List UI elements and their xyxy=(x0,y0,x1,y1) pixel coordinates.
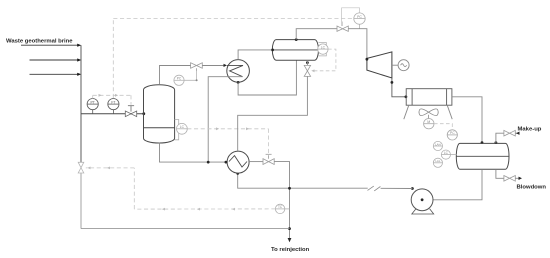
wire signal M to PC3 dashed xyxy=(434,124,452,130)
node arrow inlet 3 xyxy=(77,73,81,76)
instrument LC hotwell level xyxy=(441,150,456,159)
svg-text:To reinjection: To reinjection xyxy=(271,247,310,253)
node signal arrow TCe xyxy=(232,208,235,211)
instrument M fan motor xyxy=(424,119,434,129)
node pump shaft dot xyxy=(421,198,424,201)
instrument TC reinjection temperature xyxy=(275,204,289,213)
svg-text:LAH: LAH xyxy=(435,142,441,146)
valve V1 brine inlet control valve xyxy=(125,106,136,117)
svg-text:PC: PC xyxy=(450,131,455,135)
instrument LAH xyxy=(433,141,442,150)
node arrow blowdown xyxy=(519,177,523,180)
wire make-up line xyxy=(496,133,504,143)
wire condenser legs xyxy=(404,105,452,119)
wire separator steam outlet xyxy=(160,66,191,85)
wire downcomer HX1 bottom to drum bottom xyxy=(238,60,296,95)
wire brine separator bottom to HX2 xyxy=(160,143,228,162)
wire blowdown stub xyxy=(515,177,519,179)
node junction pump discharge xyxy=(411,187,414,190)
wire turbine exhaust to condenser xyxy=(392,78,406,97)
node junction riser to drum xyxy=(271,49,274,52)
valve V2 steam valve xyxy=(191,63,203,71)
wire riser HX1 top to drum xyxy=(238,50,272,60)
node junction drum top steam xyxy=(295,38,298,41)
node signal arrow LC1b xyxy=(246,127,249,130)
wire letdown to reinjection xyxy=(274,162,289,239)
vessel flash separator xyxy=(144,85,175,143)
instrument PC3 condenser pressure xyxy=(447,130,457,140)
node junction turbine inlet xyxy=(366,58,369,61)
wire main steam line to turbine xyxy=(296,29,337,40)
wire HX2 outlet to letdown valve xyxy=(249,161,263,163)
wire steam to evaporator xyxy=(202,65,224,67)
node arrow inlet 2 xyxy=(77,58,81,61)
svg-text:LAL: LAL xyxy=(435,159,441,163)
node signal arrow TCb xyxy=(107,167,110,170)
heat-exchanger HX1 evaporator xyxy=(227,60,250,83)
wire feedwater pump to HX2 right part xyxy=(381,187,413,189)
node junction at separator inlet xyxy=(142,112,145,115)
node junction hotwell inlet xyxy=(481,141,484,144)
wire condensate to hotwell xyxy=(452,97,482,144)
svg-text:PT: PT xyxy=(91,100,95,104)
node signal arrow TCa xyxy=(87,167,90,170)
wire signal LC2 to valve V4 dashed xyxy=(313,49,336,71)
node signal arrow 1 xyxy=(99,94,102,97)
svg-text:LC: LC xyxy=(180,125,185,129)
svg-text:Blowdown: Blowdown xyxy=(517,185,547,191)
instrument LAL xyxy=(433,158,442,167)
instrument PT xyxy=(87,99,98,114)
heat-exchanger HX2 preheater xyxy=(227,151,249,173)
valve V7 make-up valve xyxy=(504,130,515,136)
wire HX1 brine condensate outlet xyxy=(208,77,242,162)
wire steam line after valve xyxy=(348,29,367,59)
instrument PC2 steam pressure controller xyxy=(354,13,365,29)
wire brine header vertical lower xyxy=(80,173,82,229)
node junction PC signal xyxy=(196,79,198,81)
instrument FT xyxy=(108,99,119,114)
wire feedwater line left part xyxy=(238,173,368,188)
node signal arrow TCd xyxy=(197,208,200,211)
wire signal LC1 to valve V5 dashed xyxy=(187,129,268,154)
node signal arrow LC1a xyxy=(216,127,219,130)
svg-text:PC: PC xyxy=(177,77,182,81)
node signal arrow 2 xyxy=(115,94,118,97)
node junction feedwater crossing xyxy=(288,187,291,190)
instrument PC separator pressure xyxy=(174,71,197,85)
svg-text:Waste geothermal brine: Waste geothermal brine xyxy=(6,39,73,45)
wire blowdown line xyxy=(496,169,504,178)
wire drum bottom stub xyxy=(306,60,308,65)
wire make-up stub xyxy=(515,132,519,134)
wire signal dashed PT FT to valve V1 xyxy=(93,95,131,105)
vessel steam drum xyxy=(272,40,318,61)
node junction drum bottom feed xyxy=(306,61,309,64)
generator G xyxy=(392,60,409,71)
node arrow inlet 1 xyxy=(77,44,81,47)
valve V3 turbine inlet valve xyxy=(337,26,348,31)
wire feedwater valve to HX2 top xyxy=(238,76,308,151)
turbine xyxy=(367,52,392,78)
node junction HX2 bottom xyxy=(236,172,239,175)
node signal arrow TCc xyxy=(162,208,165,211)
wire brine feed pipe to separator xyxy=(81,113,144,115)
svg-text:M: M xyxy=(427,120,430,124)
svg-text:PC: PC xyxy=(357,15,362,19)
svg-text:Make-up: Make-up xyxy=(518,127,542,133)
node junction condenser inlet xyxy=(405,95,408,98)
wire hotwell to pump suction xyxy=(422,169,482,200)
valve V4 feedwater valve vertical xyxy=(304,65,310,76)
node junction make-up tee xyxy=(495,141,498,144)
node junction HX2 left xyxy=(225,161,228,164)
line break symbol xyxy=(368,186,381,191)
node junction exhaust xyxy=(391,81,394,84)
svg-text:LC: LC xyxy=(444,151,449,155)
wire brine inlet line 1 xyxy=(21,44,78,46)
wire brine inlet line 3 xyxy=(30,73,79,75)
valve V8 blowdown valve xyxy=(504,176,515,182)
valve V5 brine letdown valve xyxy=(263,154,274,164)
wire signal TC to bypass valve dashed xyxy=(86,168,276,209)
wire signal PC2 to valve V3 xyxy=(342,8,360,26)
node junction brine condensate join xyxy=(207,161,210,164)
node arrow into evaporator xyxy=(224,64,228,67)
wire brine inlet line 2 xyxy=(30,59,79,61)
node arrow to reinjection xyxy=(288,238,292,242)
svg-text:FT: FT xyxy=(111,100,115,104)
instrument LC2 drum level xyxy=(318,43,328,56)
node arrow make-up xyxy=(516,132,520,135)
node junction HX1 bottom xyxy=(237,81,240,84)
valve V6 brine bypass valve xyxy=(78,162,84,173)
fan condenser fan xyxy=(419,109,438,119)
wire signal dashed FT to PC top (long) xyxy=(113,19,353,98)
wire reinjection header xyxy=(81,228,290,230)
condenser air cooled xyxy=(406,89,452,106)
svg-text:LC: LC xyxy=(321,45,326,49)
instrument LC1 separator level xyxy=(175,120,188,140)
wire brine header vertical xyxy=(80,45,82,162)
pump condensate pump xyxy=(411,189,434,214)
vessel hotwell drum xyxy=(456,143,509,169)
node signal arrow LC2 xyxy=(311,69,314,72)
node junction reinjection join xyxy=(288,227,291,230)
svg-text:TC: TC xyxy=(278,205,283,209)
